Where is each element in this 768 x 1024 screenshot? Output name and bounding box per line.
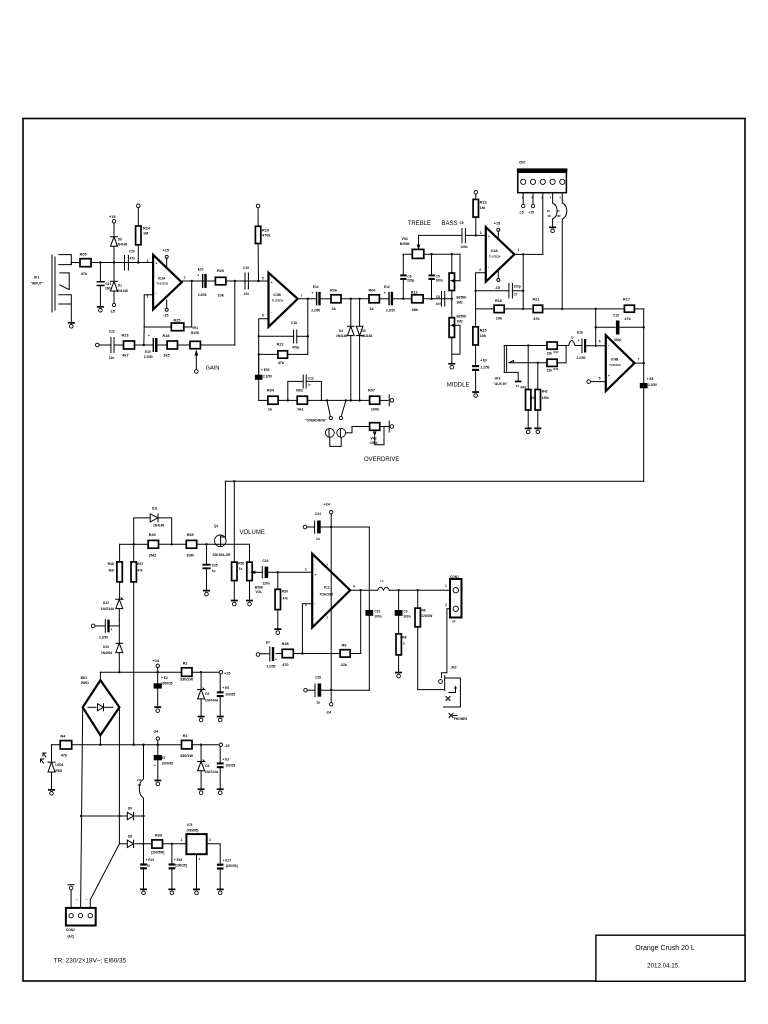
svg-text:1000/35: 1000/35 — [162, 761, 174, 765]
svg-text:3: 3 — [480, 231, 482, 235]
wire IC3B pin6 feedback — [258, 319, 269, 375]
node input gain circle — [96, 343, 100, 347]
svg-text:TL072CN: TL072CN — [157, 282, 168, 286]
svg-text:1k5: 1k5 — [163, 354, 169, 358]
svg-text:R17: R17 — [623, 297, 630, 301]
wire JK4 sleeve stub — [504, 372, 518, 380]
svg-text:2: 2 — [479, 268, 481, 272]
svg-text:IC1: IC1 — [324, 586, 330, 590]
svg-text:4k7: 4k7 — [122, 354, 128, 358]
svg-text:R50: R50 — [238, 562, 244, 566]
resistor R48 9k8 — [108, 544, 123, 599]
capacitor E18 2.2/50 — [577, 331, 606, 360]
resistor R12 68k — [411, 291, 423, 313]
svg-text:PHONES: PHONES — [454, 717, 467, 721]
resistor R44 22k — [547, 342, 559, 355]
capacitor C18 470p — [291, 321, 299, 350]
svg-text:D12: D12 — [103, 601, 109, 605]
op-amp IC4A TL072CN — [479, 227, 519, 282]
svg-text:1M2: 1M2 — [457, 319, 463, 323]
svg-text:R23: R23 — [122, 334, 129, 338]
ground under JK4 — [515, 381, 522, 388]
svg-text:1: 1 — [403, 642, 405, 646]
svg-text:47n: 47n — [244, 292, 250, 296]
svg-text:1: 1 — [518, 248, 520, 252]
label tilde marks — [76, 898, 88, 902]
svg-text:9k1: 9k1 — [297, 407, 303, 411]
svg-text:100p: 100p — [514, 285, 521, 289]
svg-text:470: 470 — [282, 663, 288, 667]
svg-text:RED: RED — [55, 769, 62, 773]
resistor R26 2k — [330, 288, 341, 311]
svg-text:+ E2: + E2 — [161, 676, 168, 680]
potentiometer VR2 C50K — [370, 423, 384, 445]
svg-text:1N4148: 1N4148 — [117, 289, 128, 293]
svg-text:22n: 22n — [109, 356, 115, 360]
wire R6 to phones row — [418, 689, 444, 691]
svg-text:1u: 1u — [147, 864, 151, 868]
svg-text:-: - — [315, 601, 316, 605]
svg-text:CON2: CON2 — [66, 928, 75, 932]
inductor L1 — [378, 579, 390, 590]
svg-text:1N4744A: 1N4744A — [205, 698, 219, 702]
diode D1 1N4148 — [111, 263, 128, 304]
capacitor E15 2.2/50 — [144, 334, 158, 359]
wire VR4 left to C6 — [403, 254, 412, 256]
svg-text:1: 1 — [305, 568, 307, 572]
svg-text:Orange Crush 20 L: Orange Crush 20 L — [635, 945, 695, 952]
svg-text:-15: -15 — [224, 744, 230, 748]
transistor Q3 opto pair — [325, 428, 345, 437]
svg-text:VR1: VR1 — [192, 326, 198, 330]
svg-text:47k: 47k — [533, 317, 540, 321]
svg-text:B250K: B250K — [457, 315, 468, 319]
svg-text:1: 1 — [181, 838, 183, 842]
svg-text:2.2/50: 2.2/50 — [267, 665, 276, 669]
resistor R13 1M — [473, 191, 486, 236]
svg-text:100n: 100n — [403, 615, 410, 619]
svg-text:1N4004: 1N4004 — [101, 651, 112, 655]
svg-text:B250K: B250K — [457, 296, 468, 300]
svg-text:+ E9: + E9 — [480, 359, 487, 363]
resistor R17 47k — [623, 297, 634, 321]
svg-text:BD1: BD1 — [81, 676, 88, 680]
svg-text:+24: +24 — [324, 503, 331, 507]
connector CON2 AC — [66, 908, 96, 938]
svg-text:-15: -15 — [163, 314, 169, 318]
svg-text:10M: 10M — [186, 553, 193, 557]
wire R17 feedback box — [595, 309, 645, 363]
resistor R16 10k — [494, 299, 504, 321]
svg-text:D1: D1 — [118, 284, 122, 288]
svg-text:CN7: CN7 — [519, 161, 526, 165]
svg-text:C50K: C50K — [370, 441, 379, 445]
border frame — [23, 119, 745, 982]
svg-text:+: + — [111, 628, 113, 632]
wire +24 top rail — [100, 671, 219, 680]
svg-text:1: 1 — [445, 584, 447, 588]
svg-text:10k: 10k — [218, 294, 225, 298]
svg-text:47k: 47k — [624, 317, 631, 321]
svg-text:C25: C25 — [212, 564, 218, 568]
wire IC3A output row — [182, 280, 269, 282]
svg-text:+: + — [384, 291, 386, 295]
power +15 above IC4A — [494, 221, 500, 239]
svg-text:47k: 47k — [61, 754, 68, 758]
bridge rectifier BD1 2W01 — [81, 676, 120, 735]
resistor R42 100k — [535, 363, 549, 428]
svg-text:-: - — [271, 310, 272, 314]
svg-text:SP: SP — [452, 620, 456, 624]
svg-text:2.2/50: 2.2/50 — [481, 366, 490, 370]
power +24 node circle — [153, 659, 160, 672]
svg-text:(AC): (AC) — [68, 934, 75, 938]
svg-text:+15: +15 — [529, 211, 535, 215]
svg-text:+15: +15 — [163, 249, 169, 253]
svg-text:[100/5W]: [100/5W] — [151, 850, 164, 854]
capacitor C9 100n — [460, 221, 468, 249]
svg-text:~: ~ — [86, 898, 88, 902]
ground under E16 — [168, 889, 175, 895]
power +24 rail into IC1 — [324, 503, 333, 692]
resistor R19 470k — [255, 204, 271, 281]
jumper J5 — [566, 335, 582, 345]
resistor R45 10M — [186, 533, 196, 557]
svg-text:5: 5 — [599, 377, 601, 381]
svg-text:R48: R48 — [108, 562, 114, 566]
svg-text:+: + — [271, 281, 273, 285]
svg-text:5: 5 — [262, 277, 264, 281]
resistor R38 470 — [282, 642, 294, 667]
potentiometer VR1 B10K — [190, 326, 200, 370]
svg-text:-: - — [608, 343, 609, 347]
capacitor C20 47n — [125, 250, 136, 271]
diode D5 1N4148 — [356, 299, 372, 401]
diode D11 1N4148 bypass — [134, 507, 172, 545]
svg-text:E18: E18 — [577, 331, 583, 335]
svg-text:1N4744A: 1N4744A — [101, 607, 115, 611]
svg-text:R16: R16 — [495, 299, 502, 303]
svg-text:JK2: JK2 — [451, 666, 457, 670]
svg-text:R8: R8 — [402, 635, 406, 639]
svg-text:100k: 100k — [371, 407, 380, 411]
svg-text:1N4148: 1N4148 — [153, 523, 164, 527]
svg-text:2M2: 2M2 — [149, 553, 156, 557]
title block box — [596, 935, 745, 981]
svg-text:VOL: VOL — [256, 590, 263, 594]
svg-text:R07: R07 — [368, 389, 375, 393]
svg-text:10k: 10k — [480, 334, 487, 338]
wire 0V mid rail — [52, 735, 220, 746]
diode D12 1N4744A zener — [101, 598, 123, 620]
svg-text:2.2/50: 2.2/50 — [263, 375, 272, 379]
diode D9 — [127, 807, 133, 820]
resistor R02 9k1 — [296, 389, 307, 412]
svg-text:C3: C3 — [403, 610, 407, 614]
svg-text:+: + — [156, 262, 158, 266]
resistor R18 1k5 — [163, 334, 178, 358]
op-amp IC4B TL072CN — [599, 335, 640, 391]
wire aux row1 — [504, 344, 566, 346]
svg-text:330p: 330p — [614, 338, 621, 342]
svg-text:IC4B: IC4B — [611, 358, 619, 362]
svg-text:-15: -15 — [519, 211, 524, 215]
svg-text:+ E13: + E13 — [146, 858, 155, 862]
svg-text:6: 6 — [599, 340, 601, 344]
svg-text:(78M05): (78M05) — [187, 829, 199, 833]
connector JK2 phones jack — [439, 666, 468, 722]
svg-text:+: + — [608, 374, 610, 378]
svg-text:+ E8: + E8 — [647, 377, 654, 381]
resistor R25 — [171, 319, 184, 331]
svg-text:R04: R04 — [267, 389, 275, 393]
svg-text:D9: D9 — [128, 807, 132, 811]
svg-text:68k: 68k — [412, 308, 419, 312]
ground under LED1 — [48, 789, 55, 795]
diode D3 1N4744A zener — [198, 745, 219, 789]
svg-text:R39: R39 — [155, 833, 162, 837]
svg-text:22k: 22k — [341, 663, 348, 667]
ground under R30 — [274, 628, 281, 634]
svg-text:7: 7 — [638, 358, 640, 362]
svg-text:-15: -15 — [110, 310, 116, 314]
svg-text:D5: D5 — [362, 329, 366, 333]
resistor R2 330/1W — [180, 661, 194, 681]
svg-text:R06: R06 — [369, 288, 376, 292]
svg-text:4n7: 4n7 — [436, 302, 442, 306]
svg-text:2.2/50: 2.2/50 — [144, 355, 153, 359]
svg-text:LED1: LED1 — [55, 763, 63, 767]
ground under R50 — [231, 600, 238, 606]
svg-text:3: 3 — [147, 259, 149, 263]
svg-text:E12: E12 — [384, 285, 390, 289]
resistor R07 100k — [368, 389, 380, 412]
capacitor C3 100n — [395, 590, 411, 634]
node E7 input circle — [256, 653, 269, 657]
power +15 node — [219, 671, 230, 676]
capacitor E14 2.2/50 — [311, 285, 320, 312]
svg-text:GAIN: GAIN — [206, 366, 220, 372]
capacitor C24 — [303, 512, 369, 541]
resistor R9 22k — [340, 643, 350, 667]
power -15 below D1 — [110, 303, 116, 313]
svg-text:1000/35: 1000/35 — [161, 682, 173, 686]
resistor R47 47k — [131, 544, 143, 744]
regulator IC5 78M05 — [181, 823, 212, 889]
terminal after R07 — [389, 395, 394, 406]
wire feedback branch R22 — [259, 298, 309, 355]
svg-text:R45: R45 — [187, 533, 194, 537]
capacitor E13 — [140, 844, 154, 889]
svg-text:VR4: VR4 — [402, 237, 408, 241]
svg-text:220n: 220n — [263, 582, 270, 586]
svg-text:~: ~ — [76, 898, 78, 902]
wire CN7 pin1 — [519, 193, 525, 215]
svg-text:1u: 1u — [316, 537, 320, 541]
jumper J8 — [547, 193, 557, 227]
op-amp IC1 TDA2030 — [305, 554, 355, 628]
svg-text:[220/50]: [220/50] — [226, 864, 238, 868]
svg-text:D8: D8 — [128, 834, 132, 838]
ground under middle pot — [448, 363, 455, 369]
svg-text:R6: R6 — [422, 609, 426, 613]
svg-text:R26: R26 — [330, 288, 337, 292]
svg-text:B10K: B10K — [191, 331, 200, 335]
svg-text:IC3A: IC3A — [158, 277, 166, 281]
svg-text:1n: 1n — [308, 383, 311, 387]
svg-text:7: 7 — [301, 294, 303, 298]
diode D10 1N4004 — [101, 643, 123, 672]
svg-text:MIDDLE: MIDDLE — [447, 383, 470, 389]
ground under E5 — [217, 716, 224, 722]
svg-text:+ E30: + E30 — [261, 368, 270, 372]
svg-text:+: + — [154, 764, 156, 768]
jumper J9 — [557, 193, 567, 309]
svg-text:-: - — [156, 291, 157, 295]
svg-text:47k: 47k — [278, 361, 285, 365]
svg-text:R42: R42 — [542, 389, 548, 393]
svg-text:220/1W: 220/1W — [421, 614, 432, 618]
resistor R05 47k — [80, 253, 91, 277]
svg-text:E1: E1 — [162, 756, 166, 760]
svg-text:+: + — [275, 658, 277, 662]
capacitor C19 47n — [243, 266, 249, 296]
resistor R6 220/1W — [415, 590, 432, 689]
svg-text:C10: C10 — [374, 610, 380, 614]
svg-text:R2: R2 — [183, 661, 188, 665]
svg-text:J10: J10 — [137, 778, 142, 782]
svg-text:VR2: VR2 — [370, 436, 376, 440]
wire overdrive row — [259, 399, 388, 401]
ground under E9 — [472, 391, 479, 397]
wire gain row — [99, 281, 235, 346]
svg-text:C8: C8 — [436, 295, 440, 299]
potentiometer VR5 bass — [449, 254, 467, 318]
svg-text:B50K: B50K — [255, 585, 264, 589]
svg-text:0R: 0R — [138, 783, 141, 787]
wire supply side rail — [368, 527, 370, 690]
svg-text:Q1: Q1 — [214, 524, 218, 528]
svg-text:C16: C16 — [263, 559, 269, 563]
svg-text:6: 6 — [262, 314, 264, 318]
wire diagonal AC to CON2 — [90, 844, 119, 908]
earth stub above CON2 — [68, 885, 74, 908]
svg-text:R1: R1 — [183, 734, 188, 738]
svg-text:+24: +24 — [153, 659, 160, 663]
wire C7 feedback row — [476, 290, 524, 292]
svg-text:C6: C6 — [407, 274, 411, 278]
capacitor C28 — [304, 676, 370, 705]
resistor R30 47k — [275, 572, 288, 628]
svg-text:R43: R43 — [554, 367, 559, 371]
svg-text:C5: C5 — [436, 274, 440, 278]
svg-text:E10: E10 — [198, 268, 204, 272]
wire IC3A pin2 feedback — [144, 295, 153, 327]
svg-text:-24: -24 — [153, 730, 159, 734]
svg-text:R41: R41 — [521, 386, 527, 390]
capacitor C22 22n — [109, 330, 115, 361]
capacitor C25 1u — [202, 544, 217, 590]
svg-text:+15: +15 — [109, 215, 115, 219]
resistor R21 47k — [533, 298, 543, 322]
svg-text:-15: -15 — [495, 286, 501, 290]
wire volume row — [120, 543, 215, 545]
connector JK4 "AUX IN" — [494, 346, 514, 386]
wire CON1 pin2 to phones — [442, 609, 451, 678]
svg-text:D10: D10 — [103, 645, 109, 649]
svg-text:C28: C28 — [315, 676, 321, 680]
potentiometer VR7 B50K volume — [247, 544, 264, 599]
svg-text:R21: R21 — [533, 298, 540, 302]
wire bass row B — [424, 253, 460, 281]
resistor R20 10k — [215, 269, 226, 298]
svg-text:R38: R38 — [282, 642, 289, 646]
svg-text:47k: 47k — [81, 272, 88, 276]
svg-text:10k: 10k — [496, 317, 503, 321]
svg-text:R22: R22 — [277, 343, 284, 347]
wire feedback row IC3A — [144, 281, 192, 327]
wire IC4B output — [635, 362, 645, 383]
svg-text:C18: C18 — [291, 321, 297, 325]
svg-text:"OVERDRIVE": "OVERDRIVE" — [305, 419, 327, 423]
svg-text:D6: D6 — [118, 238, 122, 242]
wire opto bottom loop — [330, 427, 370, 447]
ground under E1 — [154, 780, 161, 786]
svg-text:1N4148: 1N4148 — [336, 334, 347, 338]
svg-text:VOLUME: VOLUME — [240, 530, 265, 536]
svg-text:"AUX IN": "AUX IN" — [494, 382, 508, 386]
resistor R15 10k — [473, 309, 487, 365]
resistor R8 1 — [396, 634, 407, 672]
svg-text:C24: C24 — [315, 512, 321, 516]
svg-text:1u: 1u — [212, 569, 216, 573]
ground under J8 — [549, 227, 556, 233]
wire IC1 feedback row — [276, 589, 362, 655]
resistor R24 1M — [136, 204, 151, 263]
svg-text:3: 3 — [209, 838, 211, 842]
svg-text:1: 1 — [184, 276, 186, 280]
capacitor E30 2.2/50 — [255, 368, 272, 400]
svg-text:R15: R15 — [480, 329, 487, 333]
svg-text:2.2/50: 2.2/50 — [648, 383, 657, 387]
capacitor C6 220p — [400, 254, 414, 299]
svg-text:R44: R44 — [554, 350, 559, 354]
wire IC4A output node — [514, 253, 542, 309]
svg-text:4: 4 — [353, 585, 355, 589]
svg-text:2.2/50: 2.2/50 — [386, 309, 395, 313]
ground under C25 — [203, 590, 210, 596]
svg-text:100k: 100k — [542, 396, 549, 400]
svg-text:R25: R25 — [174, 319, 181, 323]
svg-text:R05: R05 — [80, 253, 87, 257]
wire IC4A pin2 branch — [474, 273, 485, 309]
ground under R42 — [534, 428, 541, 434]
svg-text:0R: 0R — [548, 214, 551, 218]
svg-text:R02: R02 — [296, 389, 303, 393]
svg-text:JK1: JK1 — [34, 276, 40, 280]
svg-text:"INPUT": "INPUT" — [31, 282, 44, 286]
svg-text:D11: D11 — [152, 507, 158, 511]
power -24 node — [326, 690, 333, 715]
resistor R04 1k — [267, 389, 278, 412]
wire aux row2 — [510, 346, 567, 364]
capacitor E16 100/25 — [169, 844, 187, 889]
svg-text:+: + — [578, 339, 580, 343]
resistor R50 1k — [232, 481, 245, 599]
svg-text:2.2/50: 2.2/50 — [99, 636, 108, 640]
svg-text:R40: R40 — [149, 533, 156, 537]
svg-text:+ E3: + E3 — [222, 758, 229, 762]
